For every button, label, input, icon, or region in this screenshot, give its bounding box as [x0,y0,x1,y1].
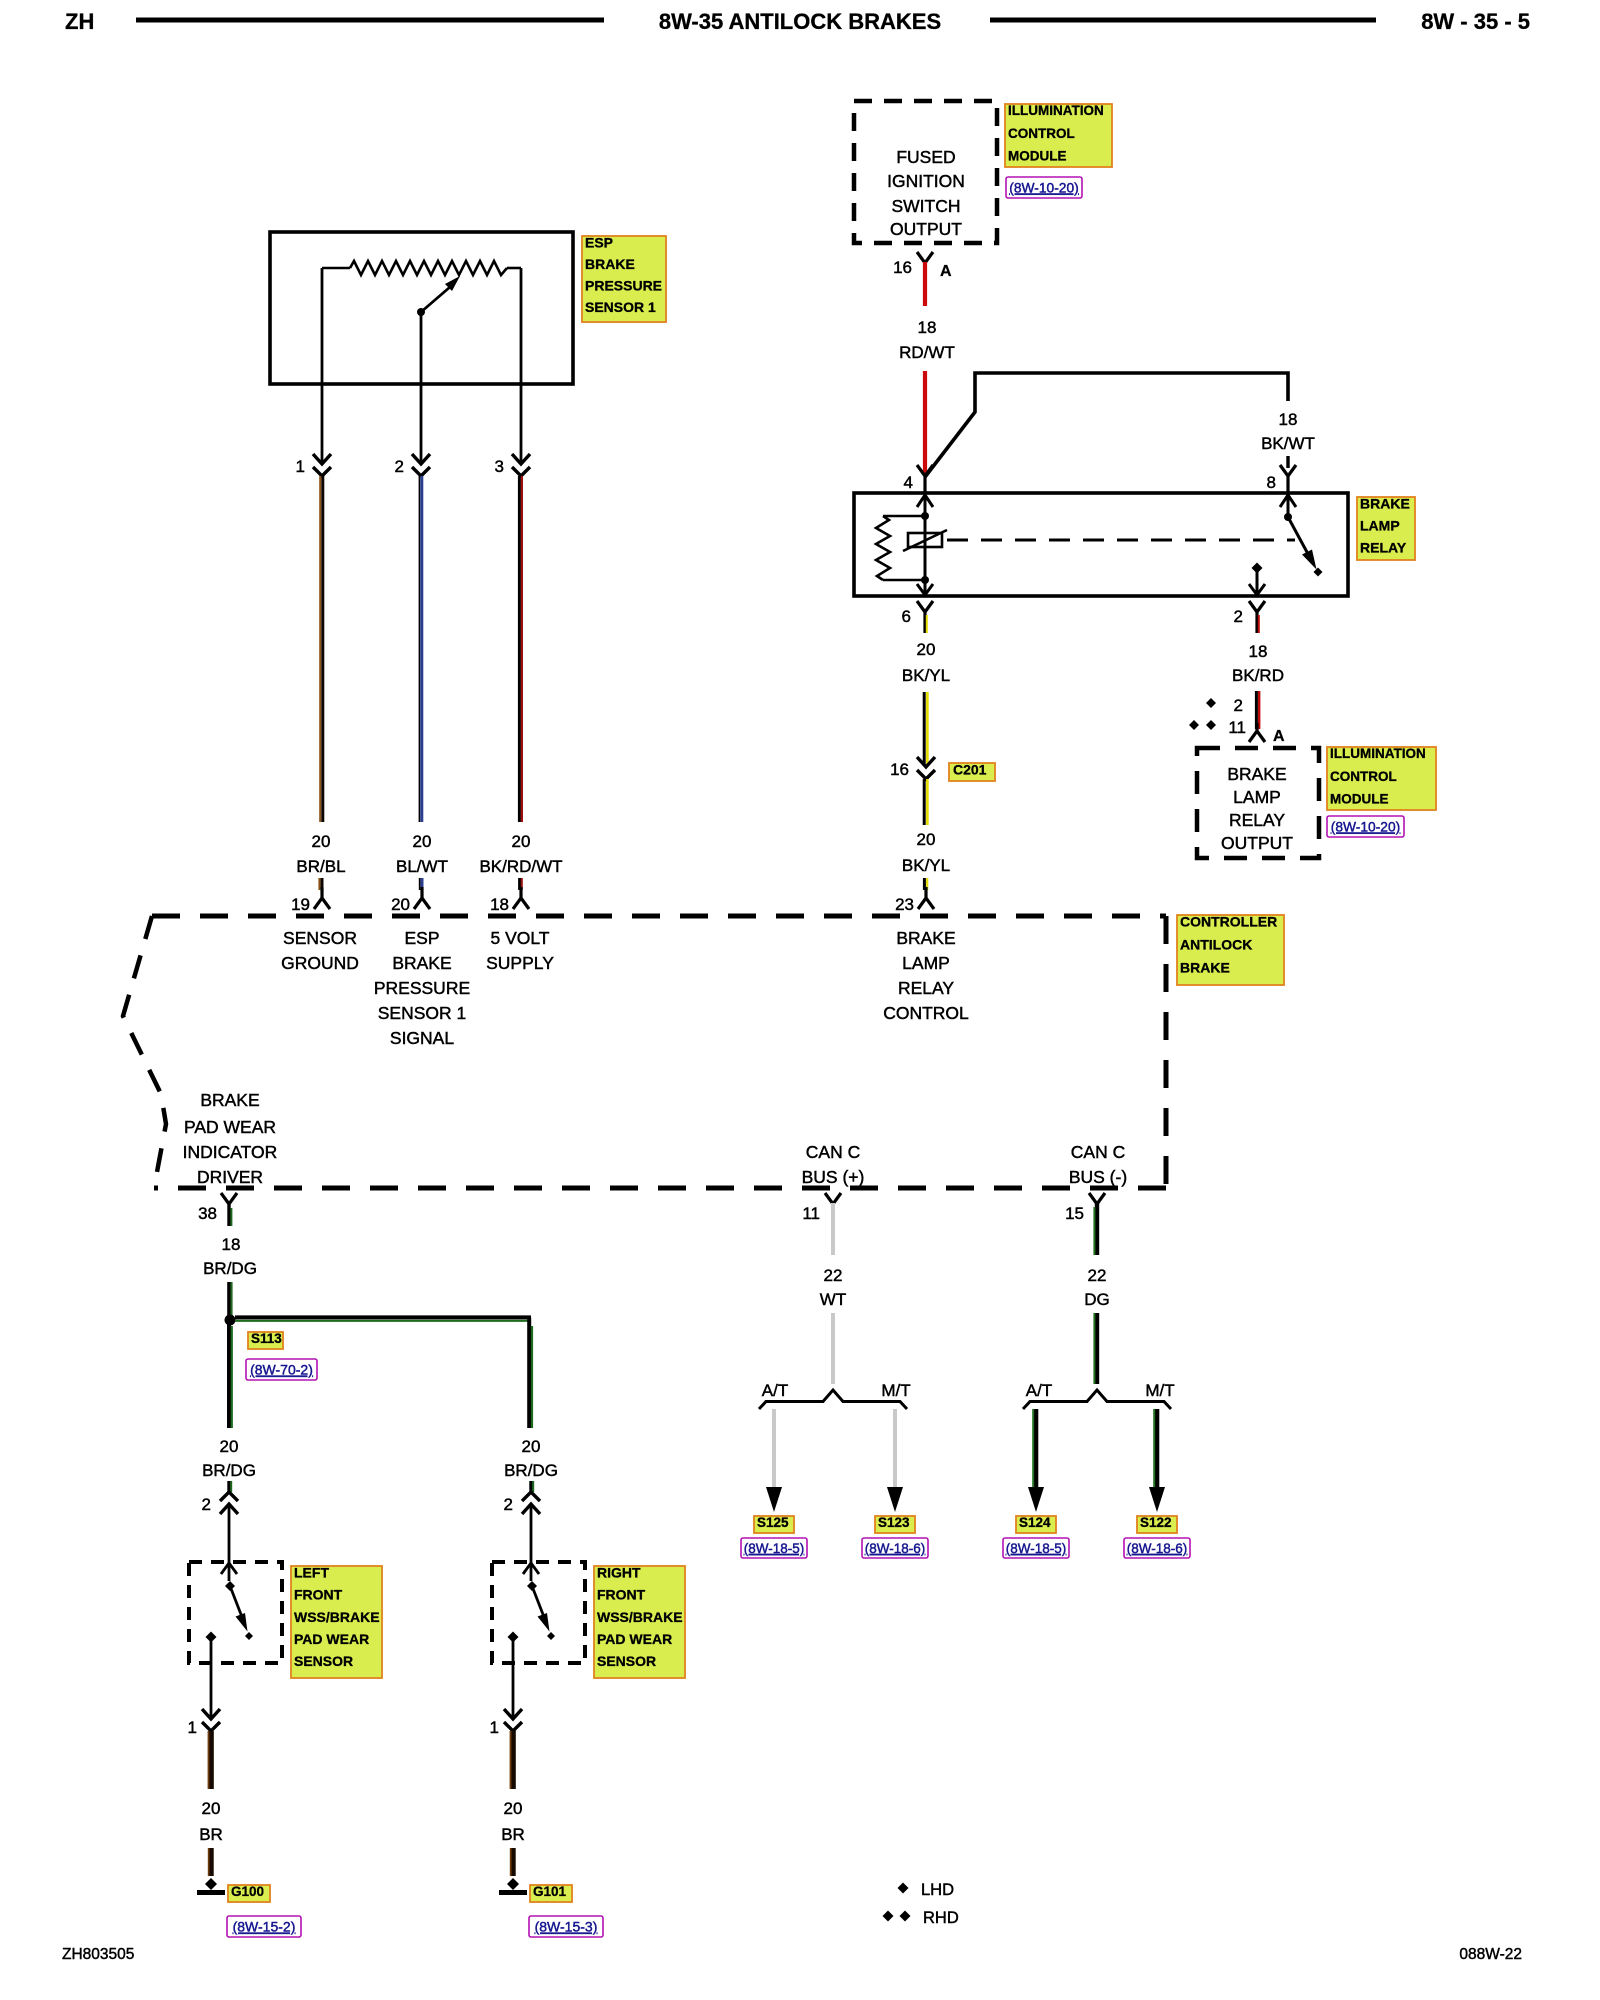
header page code ZH [65,9,94,34]
link 8W-18-6 (S123) [862,1538,928,1558]
svg-text:18: 18 [1279,410,1298,429]
svg-text:BR: BR [199,1825,223,1844]
svg-text:20: 20 [220,1437,239,1456]
svg-text:(8W-18-5): (8W-18-5) [744,1541,805,1556]
svg-text:CAN C: CAN C [1071,1142,1125,1162]
svg-text:22: 22 [1088,1266,1107,1285]
svg-text:LAMP: LAMP [902,953,950,973]
header rule right [990,18,1376,23]
svg-text:SIGNAL: SIGNAL [390,1028,454,1048]
svg-text:4: 4 [904,473,913,492]
svg-text:IGNITION: IGNITION [887,171,965,191]
svg-text:BRAKE: BRAKE [1360,495,1410,511]
svg-text:23: 23 [895,895,914,914]
pin variant labels 2 and 11 [1228,696,1246,737]
svg-text:6: 6 [902,607,911,626]
wire label 22 DG [1084,1266,1110,1309]
svg-text:BR/BL: BR/BL [296,857,345,876]
connector pin 20 of CAB [391,887,430,914]
link 8W-18-5 (S125) [741,1538,807,1558]
svg-text:(8W-15-2): (8W-15-2) [233,1919,296,1935]
pin name: esp brake pressure sensor 1 signal [374,928,470,1048]
svg-text:38: 38 [198,1204,217,1223]
wire into right sensor [530,1505,533,1581]
svg-text:S122: S122 [1140,1515,1172,1530]
svg-text:PRESSURE: PRESSURE [374,978,470,998]
wire label 20 BK/RD/WT [479,832,562,876]
wire label 20 BR/BL [296,832,345,876]
svg-text:18: 18 [918,318,937,337]
wire BR right upper [511,1731,514,1789]
wire WT upper [831,1203,835,1255]
LHD pin marker diamond [1206,698,1216,708]
wire label 18 RD/WT [899,318,955,362]
svg-text:RIGHT: RIGHT [597,1564,641,1580]
ground G100 [197,1878,225,1893]
pin name: 5 volt supply [486,928,554,973]
svg-text:20: 20 [917,640,936,659]
label S113 [248,1331,283,1349]
wire BK/WT from relay pin 8 region [925,373,1288,477]
connector pin 23 of CAB [895,887,934,914]
wire label 20 BR/DG (right) [504,1437,558,1480]
connector pin 3 (ESP sensor) [495,454,530,476]
relay switch common wire pin 8 [1280,495,1296,521]
wire label 18 BK/RD [1232,642,1284,685]
svg-text:20: 20 [413,832,432,851]
connector pin 2 (ESP sensor) [395,454,430,476]
link 8W-15-2 [227,1916,301,1937]
component box: ESP brake pressure sensor 1 [270,232,573,384]
left sensor entry arrow [221,1563,237,1574]
svg-text:ILLUMINATION: ILLUMINATION [1330,746,1426,761]
svg-text:(8W-70-2): (8W-70-2) [250,1362,313,1378]
wire label 20 BK/YL (lower) [902,830,950,875]
relay coil branch wire pin4 to pin6 [917,495,933,595]
label: esp brake pressure sensor 1 [582,234,666,322]
svg-text:RELAY: RELAY [1360,539,1407,555]
relay box: brake lamp relay [854,493,1348,596]
svg-text:(8W-10-20): (8W-10-20) [1331,819,1401,834]
svg-text:CONTROLLER: CONTROLLER [1180,913,1277,929]
wire RD/WT upper stub [923,262,927,306]
svg-text:PAD WEAR: PAD WEAR [184,1117,276,1137]
wire BK/WT stub to pin 8 [1286,456,1289,468]
svg-text:ZH: ZH [65,9,94,34]
potentiometer resistor element [322,261,521,275]
svg-text:RELAY: RELAY [898,978,954,998]
svg-text:SENSOR: SENSOR [597,1653,656,1669]
right sensor lower terminal [508,1632,519,1719]
label: left front wss/brake pad wear sensor [291,1564,382,1678]
wire ESP pin 1 lead [321,268,324,463]
svg-text:20: 20 [917,830,936,849]
pin name: CAN C bus minus [1069,1142,1127,1187]
svg-text:S124: S124 [1019,1515,1051,1530]
connector pin 4 of brake lamp relay [904,465,933,493]
wire label 20 BL/WT [396,832,448,876]
connector pin 1 (right sensor) [490,1709,522,1737]
svg-text:2: 2 [395,457,404,476]
connector pin 2 of brake lamp relay [1234,601,1265,633]
legend LHD [898,1881,955,1899]
svg-text:(8W-15-3): (8W-15-3) [535,1919,598,1935]
connector pin 11 of CAB [802,1193,841,1223]
wire BR/DG splice horizontal run [235,1317,531,1320]
svg-text:G100: G100 [231,1884,264,1899]
svg-text:A/T: A/T [762,1381,788,1400]
svg-text:5 VOLT: 5 VOLT [490,928,549,948]
svg-text:SWITCH: SWITCH [891,196,960,216]
svg-text:BK/YL: BK/YL [902,666,950,685]
svg-text:ANTILOCK: ANTILOCK [1180,936,1252,952]
svg-text:SENSOR 1: SENSOR 1 [378,1003,467,1023]
wire ESP pin 2 lead [420,312,423,463]
svg-text:G101: G101 [533,1884,567,1899]
svg-text:CONTROL: CONTROL [883,1003,969,1023]
svg-text:OUTPUT: OUTPUT [1221,833,1293,853]
wire DG upper [1094,1203,1097,1255]
svg-text:BRAKE: BRAKE [200,1090,259,1110]
footer drawing number [62,1946,134,1963]
wire into left sensor [228,1505,231,1581]
left sensor lower terminal [206,1632,217,1719]
svg-text:CONTROL: CONTROL [1330,769,1397,784]
relay actuation dashed link [947,539,1295,542]
svg-text:BUS (+): BUS (+) [802,1167,865,1187]
svg-text:BK/RD: BK/RD [1232,666,1284,685]
svg-text:BR/DG: BR/DG [202,1461,256,1480]
svg-text:BRAKE: BRAKE [1180,959,1230,975]
wire BR/DG right branch [529,1318,532,1428]
svg-text:FRONT: FRONT [294,1587,343,1603]
svg-text:15: 15 [1065,1204,1084,1223]
svg-text:SENSOR: SENSOR [294,1653,353,1669]
svg-text:BK/RD/WT: BK/RD/WT [479,857,562,876]
label G101 [530,1884,572,1902]
svg-text:RHD: RHD [923,1909,959,1927]
footer sheet number [1459,1946,1522,1963]
svg-text:INDICATOR: INDICATOR [183,1142,278,1162]
svg-text:PAD WEAR: PAD WEAR [294,1631,369,1647]
wire ESP pin 3 lead [520,268,523,463]
svg-text:8: 8 [1267,473,1276,492]
svg-text:CONTROL: CONTROL [1008,126,1075,141]
wire BK/YL lower segment [924,779,927,825]
svg-text:(8W-18-6): (8W-18-6) [865,1541,926,1556]
svg-text:ILLUMINATION: ILLUMINATION [1008,103,1104,118]
svg-text:ZH803505: ZH803505 [62,1946,134,1963]
svg-text:BR/DG: BR/DG [504,1461,558,1480]
svg-text:BR/DG: BR/DG [203,1259,257,1278]
svg-text:16: 16 [893,258,912,277]
connector pin A of illumination control module [1249,723,1285,745]
connector pin 2 (right wss sensor) [504,1481,540,1514]
svg-text:PRESSURE: PRESSURE [585,278,662,294]
label S125 [754,1515,794,1533]
link 8W-15-3 [529,1916,603,1937]
svg-text:LEFT: LEFT [294,1564,329,1580]
right sensor switch [527,1581,555,1640]
svg-text:8W - 35 - 5: 8W - 35 - 5 [1421,9,1530,34]
wire BR right stub [511,1848,514,1876]
svg-text:11: 11 [1228,718,1246,737]
link 8W-18-5 (S124) [1003,1538,1069,1558]
relay coil [903,530,947,551]
svg-text:SENSOR 1: SENSOR 1 [585,299,656,315]
svg-text:BUS (-): BUS (-) [1069,1167,1127,1187]
wire DG M/T branch [1149,1409,1165,1512]
svg-text:WSS/BRAKE: WSS/BRAKE [597,1609,683,1625]
link 8W-10-20 (bottom) [1327,816,1404,837]
label C201 [949,761,995,781]
wire label 20 BR/DG (left) [202,1437,256,1480]
svg-text:ESP: ESP [585,234,613,250]
left sensor switch [225,1581,253,1640]
svg-text:MODULE: MODULE [1008,149,1067,164]
label: illumination control module (bottom) [1327,746,1436,810]
label S122 [1137,1515,1177,1533]
wire DG lower [1094,1313,1097,1384]
A/T M/T split brace (right) [1023,1381,1175,1409]
connector pin 38 of CAB [198,1193,237,1226]
legend RHD [883,1909,959,1927]
wire label 20 BR (left) [199,1799,223,1844]
link 8W-10-20 (top) [1006,177,1082,198]
pin name: brake lamp relay control [883,928,969,1023]
svg-text:S123: S123 [878,1515,910,1530]
connector pin 8 of brake lamp relay [1267,465,1296,493]
svg-text:S113: S113 [251,1331,282,1346]
label S123 [875,1515,915,1533]
svg-text:LHD: LHD [921,1881,954,1899]
wire label 20 BR (right) [501,1799,525,1844]
svg-text:PAD WEAR: PAD WEAR [597,1631,672,1647]
module box: brake lamp relay output (illumination control module) [1197,748,1319,858]
svg-text:11: 11 [802,1204,820,1223]
svg-text:DRIVER: DRIVER [197,1167,263,1187]
connector C201 pin 16 [890,757,935,779]
svg-text:2: 2 [504,1495,513,1514]
wire BR/DG stub to splice [229,1282,232,1316]
svg-text:LAMP: LAMP [1233,787,1281,807]
svg-text:A/T: A/T [1026,1381,1052,1400]
svg-text:088W-22: 088W-22 [1459,1946,1522,1963]
svg-text:1: 1 [188,1718,197,1737]
relay internal resistor [876,516,925,580]
svg-text:(8W-18-6): (8W-18-6) [1127,1541,1188,1556]
module box: fused ignition switch output (illumination control module) [854,101,997,243]
splice S113 [225,1315,236,1326]
svg-text:GROUND: GROUND [281,953,359,973]
label S124 [1016,1515,1056,1533]
wire DG A/T branch [1028,1409,1044,1512]
svg-text:18: 18 [490,895,509,914]
label: brake lamp relay [1357,495,1415,560]
wire WT A/T branch [766,1409,782,1512]
connector pin 1 (ESP sensor) [296,454,331,476]
RHD pin marker diamonds [1189,720,1216,730]
svg-text:2: 2 [202,1495,211,1514]
component box: left front wss/brake pad wear sensor [189,1562,282,1663]
A/T M/T split brace (left) [759,1381,911,1409]
svg-text:LAMP: LAMP [1360,517,1400,533]
svg-text:22: 22 [824,1266,843,1285]
svg-text:20: 20 [522,1437,541,1456]
svg-text:BRAKE: BRAKE [1227,764,1286,784]
svg-text:2: 2 [1234,607,1243,626]
svg-text:BK/WT: BK/WT [1261,434,1315,453]
wire WT lower [831,1313,835,1384]
svg-text:DG: DG [1084,1290,1110,1309]
wire BR/DG left branch [229,1320,232,1428]
wire BR left upper [209,1731,212,1789]
svg-text:2: 2 [1234,696,1243,715]
wire stub pin 19 [319,878,322,890]
relay pin 2 stub [1249,563,1265,596]
relay switch arm [1288,517,1323,577]
connector pin 16 on fused ignition output [893,252,952,280]
svg-text:1: 1 [296,457,305,476]
svg-text:OUTPUT: OUTPUT [890,219,962,239]
svg-text:BK/YL: BK/YL [902,856,950,875]
label G100 [228,1884,270,1902]
svg-text:SUPPLY: SUPPLY [486,953,554,973]
connector pin 1 (left sensor) [188,1709,220,1737]
link 8W-18-6 (S122) [1124,1538,1190,1558]
connector pin 19 of CAB [291,887,330,914]
svg-text:ESP: ESP [404,928,439,948]
svg-text:C201: C201 [953,761,987,777]
svg-text:BRAKE: BRAKE [896,928,955,948]
wire label 22 WT [820,1266,846,1309]
module box: controller antilock brake [123,916,1166,1188]
svg-text:A: A [940,263,952,280]
wire BR/BL [320,476,323,822]
svg-text:S125: S125 [757,1515,789,1530]
svg-text:16: 16 [890,760,909,779]
wire BK/YL upper segment [924,692,927,766]
pin name: brake pad wear indicator driver [183,1090,278,1187]
header rule left [136,18,604,23]
header page number 8W-35-5 [1421,9,1530,34]
svg-text:BRAKE: BRAKE [392,953,451,973]
svg-text:18: 18 [1249,642,1268,661]
svg-text:20: 20 [312,832,331,851]
svg-text:FUSED: FUSED [896,147,955,167]
svg-text:WT: WT [820,1290,846,1309]
label: illumination control module (top) [1005,103,1112,167]
svg-text:(8W-18-5): (8W-18-5) [1006,1541,1067,1556]
svg-text:BR: BR [501,1825,525,1844]
pin name: sensor ground [281,928,359,973]
wire stub pin 18 [520,878,522,890]
svg-text:A: A [1273,728,1285,745]
wire label 18 BR/DG [203,1235,257,1278]
svg-text:RELAY: RELAY [1229,810,1285,830]
svg-text:18: 18 [222,1235,241,1254]
svg-text:FRONT: FRONT [597,1587,646,1603]
header title 8W-35 ANTILOCK BRAKES [659,9,941,34]
svg-text:RD/WT: RD/WT [899,343,955,362]
wire stub pin 20 [420,878,422,890]
component box: right front wss/brake pad wear sensor [492,1562,585,1663]
svg-text:19: 19 [291,895,310,914]
svg-text:20: 20 [504,1799,523,1818]
wire BK/RD/WT [519,476,522,822]
svg-text:MODULE: MODULE [1330,792,1389,807]
connector pin 2 (left wss sensor) [202,1481,238,1514]
connector pin 6 of brake lamp relay [902,601,933,633]
label: controller antilock brake [1177,913,1284,985]
svg-text:3: 3 [495,457,504,476]
svg-text:8W-35 ANTILOCK BRAKES: 8W-35 ANTILOCK BRAKES [659,9,941,34]
pin name: CAN C bus plus [802,1142,865,1187]
right sensor entry arrow [523,1563,539,1574]
svg-text:1: 1 [490,1718,499,1737]
svg-text:(8W-10-20): (8W-10-20) [1009,180,1079,195]
connector pin 15 of CAB [1065,1193,1105,1223]
label: right front wss/brake pad wear sensor [594,1564,685,1678]
wire BK/YL stub to pin 23 [924,878,927,890]
svg-text:M/T: M/T [881,1381,910,1400]
svg-text:BRAKE: BRAKE [585,256,635,272]
svg-text:20: 20 [202,1799,221,1818]
svg-text:20: 20 [512,832,531,851]
wire BR left stub [209,1848,212,1876]
link 8W-70-2 [246,1359,317,1380]
wire BK/RD [1256,691,1259,729]
svg-text:M/T: M/T [1145,1381,1174,1400]
wire label 18 BK/WT [1261,410,1315,453]
svg-text:WSS/BRAKE: WSS/BRAKE [294,1609,380,1625]
svg-text:BL/WT: BL/WT [396,857,448,876]
potentiometer wiper arm [417,276,460,316]
ground G101 [499,1878,527,1893]
svg-text:SENSOR: SENSOR [283,928,357,948]
connector pin 18 of CAB [490,887,529,914]
wire label 20 BK/YL (upper) [902,640,950,685]
svg-text:20: 20 [391,895,410,914]
wire BL/WT [419,476,421,822]
wire WT M/T branch [887,1409,903,1512]
wire RD/WT (circuit A) to relay pin 4 [923,371,927,475]
svg-text:CAN C: CAN C [806,1142,860,1162]
